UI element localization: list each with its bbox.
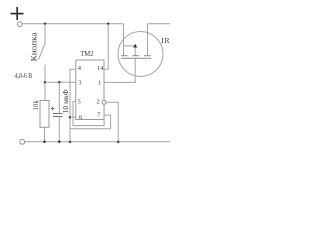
- transistor gate electrode: [121, 57, 151, 59]
- svg-text:10 мкФ: 10 мкФ: [61, 89, 70, 113]
- node switch-resistor junction: [44, 81, 47, 84]
- svg-text:Кнопка: Кнопка: [28, 32, 38, 61]
- wire switch lower lead: [44, 65, 46, 101]
- node capacitor tap: [58, 81, 61, 84]
- switch SB1 blade: [39, 44, 46, 60]
- pin 2 wire to rail: [106, 102, 118, 142]
- svg-text:4,8-6 В: 4,8-6 В: [15, 72, 33, 80]
- transistor source lead: [123, 24, 125, 56]
- svg-text:3: 3: [78, 80, 81, 87]
- resistor R1 body: [40, 101, 49, 128]
- node capacitor-rail: [58, 141, 61, 144]
- transistor body stub: [134, 47, 136, 56]
- terminal bottom: [20, 139, 25, 144]
- wire to pin 3: [45, 81, 76, 83]
- node pin2-rail: [117, 141, 120, 144]
- transistor drain lead: [147, 24, 149, 56]
- svg-text:14: 14: [97, 65, 104, 72]
- svg-text:1: 1: [98, 80, 101, 87]
- IC U1 body: [76, 60, 104, 120]
- pin 1 wire to gate: [104, 58, 135, 82]
- wire switch upper lead: [44, 24, 46, 44]
- wire drain to load (off page): [148, 23, 171, 25]
- svg-text:5: 5: [78, 98, 81, 105]
- node resistor-rail: [43, 141, 46, 144]
- pin 14 wire to top rail: [104, 24, 108, 70]
- pin 7 wire to bus (U2 loop): [70, 115, 111, 129]
- transistor body tie: [124, 45, 136, 47]
- svg-text:ТМ2: ТМ2: [80, 49, 93, 58]
- wire top rail: [22, 23, 123, 25]
- node top-pin14 junction: [107, 23, 110, 26]
- node bus-rail: [69, 141, 72, 144]
- node pin6 on bus: [69, 116, 72, 119]
- svg-text:4: 4: [78, 65, 82, 72]
- pin 2 inversion bubble: [102, 100, 106, 104]
- transistor VT1 envelope circle: [118, 32, 163, 77]
- pin 5 wire to Q-bar (U1 loop): [73, 102, 104, 126]
- transistor body arrow: [133, 44, 137, 48]
- capacitor C1 upper lead: [58, 82, 60, 113]
- svg-text:7: 7: [97, 112, 101, 119]
- svg-text:IRF540: IRF540: [161, 36, 170, 45]
- node top-switch junction: [44, 23, 47, 26]
- wire resistor to rail: [44, 127, 46, 142]
- pin 4 stub: [70, 69, 76, 142]
- terminal top: [17, 22, 22, 27]
- svg-text:2: 2: [97, 99, 100, 106]
- svg-text:10k: 10k: [31, 100, 40, 110]
- capacitor C1 plates: [53, 113, 62, 115]
- transistor channel segments: [121, 55, 127, 57]
- capacitor C1 lower lead: [58, 117, 60, 142]
- capacitor plus mark: [51, 107, 54, 110]
- plus supply symbol: [11, 7, 24, 20]
- pin 6 stub: [70, 116, 76, 118]
- bottom rail: [25, 141, 170, 143]
